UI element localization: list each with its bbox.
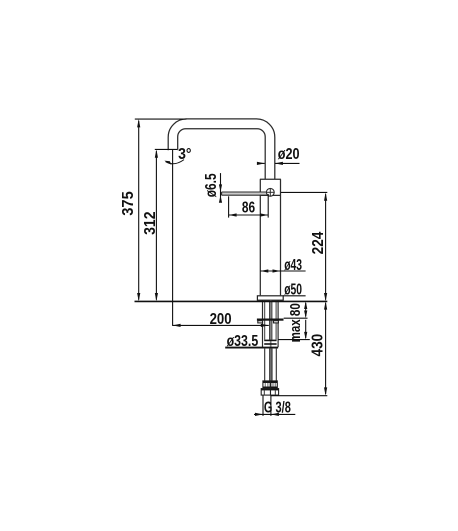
body column right wall [280, 179, 282, 295]
dim 312 line [155, 151, 157, 300]
dim 312 extension top [155, 148, 177, 150]
dim 86 line [229, 214, 269, 216]
svg-text:86: 86 [242, 200, 255, 217]
svg-text:ø20: ø20 [278, 146, 300, 163]
screw cross [266, 188, 275, 197]
crimp sleeve right [271, 381, 278, 389]
dim 430 ext bottom [271, 395, 327, 397]
dim G38 line [254, 413, 295, 415]
86 arrows [229, 213, 237, 216]
center grey line [270, 300, 272, 381]
svg-text:ø33.5: ø33.5 [227, 333, 259, 350]
svg-text:G 3/8: G 3/8 [264, 400, 291, 417]
dim G38 ext left [262, 396, 264, 416]
dim o50 line [283, 295, 305, 297]
mounting washer bar [257, 319, 284, 321]
counter extension line [135, 300, 328, 302]
side pipe top line [222, 191, 267, 193]
svg-text:224: 224 [310, 232, 327, 255]
dim 375 extension top [135, 118, 187, 120]
o6.5 arrows [219, 184, 222, 192]
washer tab left [258, 321, 263, 323]
dim 86 ext right [267, 194, 269, 218]
side pipe bottom line [222, 194, 267, 196]
body column top edge [260, 178, 281, 180]
dim G38 ext right [270, 396, 272, 416]
dim o43 line [260, 270, 305, 272]
3deg arc arrow [164, 161, 171, 165]
shank bottom edge / o33.5 leader [225, 347, 278, 349]
312 arrows [155, 149, 158, 157]
screw circle [266, 188, 274, 196]
o43 arrows [260, 269, 268, 272]
arrowheads [137, 119, 327, 416]
crimp sleeve left [263, 381, 270, 389]
dim o6.5 line [220, 173, 222, 202]
spout outer contour [168, 119, 275, 179]
dim 224 ext top [281, 191, 327, 193]
svg-text:430: 430 [309, 334, 326, 357]
hex nut right [271, 389, 279, 396]
svg-text:ø43: ø43 [284, 257, 302, 274]
dim 375 line [138, 121, 140, 300]
shank walls [263, 300, 279, 347]
side pipe end cap [221, 192, 223, 195]
dim max80 ext mid [284, 317, 308, 319]
spout inner contour [178, 129, 266, 180]
svg-text:ø50: ø50 [284, 282, 302, 299]
3deg arc [166, 160, 185, 164]
dim 224 line [325, 194, 327, 300]
hoses [265, 349, 277, 381]
200 arrows [173, 324, 181, 327]
hex nut left [261, 389, 270, 396]
svg-text:375: 375 [120, 191, 137, 216]
dim max80 tail [305, 320, 307, 338]
dim max80 line upper [305, 303, 307, 317]
dim o20 line left stub [257, 162, 264, 164]
shank inner hose lines [265, 300, 276, 339]
G38 arrows [255, 413, 263, 416]
430 arrows [324, 301, 327, 309]
max80 arrows [304, 301, 307, 309]
dim o20 line right part [275, 162, 299, 164]
svg-text:ø6.5: ø6.5 [203, 173, 220, 197]
dim 430 line [325, 303, 327, 394]
body joint line [260, 194, 280, 196]
flange [257, 296, 283, 300]
svg-text:3°: 3° [178, 146, 191, 163]
spout axis extension [172, 149, 174, 326]
dim 200 line [173, 324, 269, 326]
side pipe fill [222, 192, 267, 194]
224 arrows [324, 192, 327, 200]
svg-text:200: 200 [210, 311, 232, 328]
washer tab right [274, 321, 279, 323]
body column left wall [259, 179, 261, 295]
o20 arrows [257, 162, 265, 165]
fitting bands inside shank [264, 340, 276, 344]
dim max80 ext bottom [278, 339, 310, 341]
dim 86 ext left [228, 196, 230, 217]
375 arrows [137, 119, 140, 127]
svg-text:max 80: max 80 [288, 303, 304, 342]
svg-text:312: 312 [142, 211, 159, 234]
